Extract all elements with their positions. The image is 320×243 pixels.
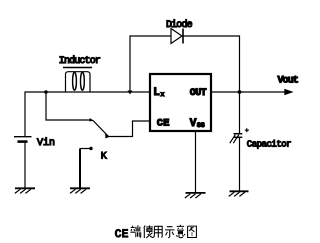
svg-text:Capacitor: Capacitor bbox=[247, 140, 291, 150]
diode D1 bbox=[171, 29, 183, 44]
svg-text:SS: SS bbox=[197, 122, 205, 129]
wire: diode cathode to right rail corner, down to OUT node bbox=[183, 36, 240, 133]
svg-text:CE: CE bbox=[115, 229, 129, 241]
svg-text:Inductor: Inductor bbox=[59, 55, 101, 67]
node junction dot at OUT/right-rail bbox=[238, 90, 242, 94]
svg-text:Diode: Diode bbox=[166, 19, 193, 31]
node junction at diode branch (130,92) bbox=[128, 91, 133, 95]
wire: branch up to diode rail bbox=[130, 36, 171, 92]
battery Vin plates bbox=[14, 136, 32, 138]
IC U1 box bbox=[150, 74, 211, 131]
caption glyph 使 bbox=[144, 225, 153, 238]
node pole arrow at (92.5,120) bbox=[89, 118, 94, 122]
Vout arrowhead bbox=[284, 89, 293, 96]
node blade-end arrowhead at (108.5,136.5) bbox=[105, 134, 110, 139]
wire: battery negative to ground bbox=[24, 143, 26, 188]
svg-text:x: x bbox=[161, 91, 165, 98]
ground (switch K) bbox=[70, 188, 90, 193]
caption glyph 图 bbox=[188, 226, 197, 237]
svg-text:L: L bbox=[153, 87, 160, 99]
svg-text:OUT: OUT bbox=[190, 88, 207, 99]
switch K blade (diagonal) bbox=[93, 120, 109, 137]
ground (Vss) bbox=[185, 193, 206, 198]
caption glyph 端 bbox=[130, 225, 140, 237]
caption glyph 用 bbox=[153, 226, 162, 237]
svg-text:V: V bbox=[190, 118, 197, 130]
wire: main Lx rail from battery top corner to IC left bbox=[25, 92, 150, 136]
inductor L1 bbox=[66, 72, 91, 92]
ground (battery) bbox=[15, 188, 35, 193]
svg-text:CE: CE bbox=[157, 118, 170, 130]
wire: OUT pin to Vout arrow bbox=[211, 91, 285, 93]
svg-text:K: K bbox=[101, 152, 107, 163]
wire: K contact to ground bbox=[80, 148, 91, 150]
ground (capacitor) bbox=[229, 191, 249, 196]
capacitor C1 (polarized) bbox=[230, 128, 249, 143]
caption glyph 意 bbox=[177, 225, 185, 238]
node K contact dot bbox=[89, 147, 92, 150]
node junction dot at (46,92) bbox=[44, 90, 48, 94]
caption glyph 示 bbox=[165, 227, 175, 238]
wire: switch to CE pin bbox=[109, 121, 151, 137]
wire: Vss pin to ground bbox=[195, 131, 197, 193]
wire: capacitor to ground bbox=[239, 138, 241, 192]
wire: junction down to switch level bbox=[46, 92, 92, 120]
svg-text:Vout: Vout bbox=[278, 76, 299, 87]
svg-text:Vin: Vin bbox=[37, 137, 55, 149]
